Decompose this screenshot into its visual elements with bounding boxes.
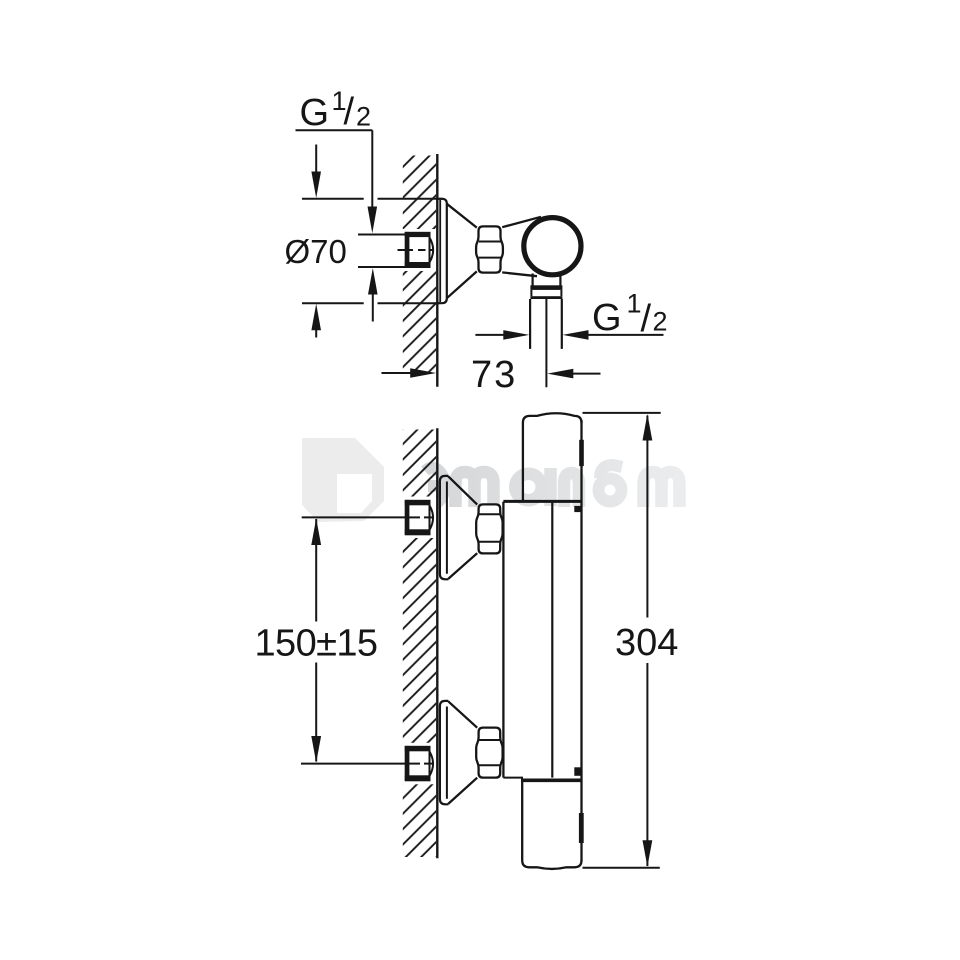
housing top junction line [503,500,581,503]
wall (top view) surface line [436,154,438,387]
watermark letter a [515,474,542,501]
svg-text:/: / [641,298,652,340]
upper cone bottom edge [448,553,477,579]
wall (front) surface line [436,428,438,858]
wall (top view) hatch [403,156,436,375]
watermark letter b [599,479,622,502]
wall (front) hatch [403,430,436,858]
dim G 1/2 (outlet) right arrow [563,330,589,340]
svg-text:G: G [300,92,330,134]
svg-text:G: G [592,297,622,339]
centerline dashes [398,249,414,251]
svg-text:150±15: 150±15 [255,622,378,664]
nipple end arc [430,238,434,263]
leader shaft down from label [371,130,373,208]
dim 150 extension top / centerline [302,516,406,518]
Ø70 up arrowhead [311,304,321,331]
Ø70 extension line bottom [302,302,364,304]
pipe centerline [545,299,547,387]
bottom tube outline [522,780,581,869]
dim 304 extension bottom [583,867,660,869]
watermark letter m2 [644,472,680,507]
svg-text:2: 2 [356,102,371,132]
body right edge [580,420,582,861]
supply square nut (top view) [406,233,430,267]
lower hex nut [476,728,502,778]
dim 304 down arrowhead [643,840,653,867]
svg-text:1: 1 [627,289,642,319]
hose nut [530,285,562,290]
dim 304 extension top [583,412,661,414]
dim 150 line upper segment [315,519,317,622]
lower escutcheon rim [440,701,449,804]
knob circle [524,218,581,275]
bottom tube right tick [579,813,584,843]
dim 304 up arrowhead [643,414,653,441]
watermark letter m1 [456,472,494,507]
escutcheon back line [439,200,441,302]
valve body (side view) [502,217,541,227]
housing clip tick bottom [574,767,581,776]
watermark letter l [564,473,579,507]
escutcheon cone bottom edge [447,271,477,298]
upper hex nut [476,504,502,553]
svg-text:2: 2 [653,307,668,337]
body housing left edge [502,502,504,778]
Ø70 down arrowhead [311,172,321,199]
upper supply square [406,501,430,534]
watermark letter e [425,468,445,505]
svg-text:304: 304 [615,622,678,664]
top tube right tick [579,440,584,466]
lower cone top edge [448,701,477,727]
hex nut (top view) [476,226,503,272]
lower cone bottom edge [448,778,477,804]
dim 150 line lower segment [315,663,317,762]
Ø70 down arrow shaft [315,145,317,173]
upper square underlay [403,497,438,539]
watermark logo [302,438,384,522]
dim G 1/2 (outlet) left arrow [475,334,504,336]
arrowhead down to nipple top line [368,207,378,234]
bottom junction thick line [521,778,582,782]
upper escutcheon rim [440,476,449,579]
Ø70 up arrow shaft [315,330,317,338]
housing inner vertical line [551,502,553,778]
lower square underlay [403,743,438,785]
nipple bottom extension line [358,266,405,268]
dim 150 up arrowhead [311,518,321,545]
svg-text:73: 73 [471,354,517,396]
dim 73 left arrow [382,372,412,374]
dim 304 line upper segment [646,416,648,618]
supply square underlay [403,229,438,271]
housing bottom edge [503,777,523,779]
upper escutcheon face line [446,482,448,574]
escutcheon rim (top view) [438,199,447,303]
dim 73 right arrow [547,369,573,379]
svg-text:Ø70: Ø70 [285,233,347,270]
lower supply square [406,747,430,780]
shaft below up-arrow [372,294,374,322]
nipple top extension line [358,234,405,236]
outlet neck [531,274,533,286]
housing clip tick top [574,506,581,512]
dim 150 down arrowhead [311,736,321,763]
upper cone top edge [448,476,477,504]
Ø70 extension line top (gap at leader crossing) [302,198,364,200]
escutcheon cone top edge [447,204,477,228]
top tube outline [523,413,582,501]
dim 150 extension bottom / centerline [301,763,405,765]
label underline [296,129,373,131]
svg-text:/: / [344,91,355,133]
lower escutcheon face line [446,707,448,799]
arrowhead up to nipple bottom line [368,268,378,295]
dim 304 line lower segment [646,663,648,866]
outlet pipe [529,299,531,349]
